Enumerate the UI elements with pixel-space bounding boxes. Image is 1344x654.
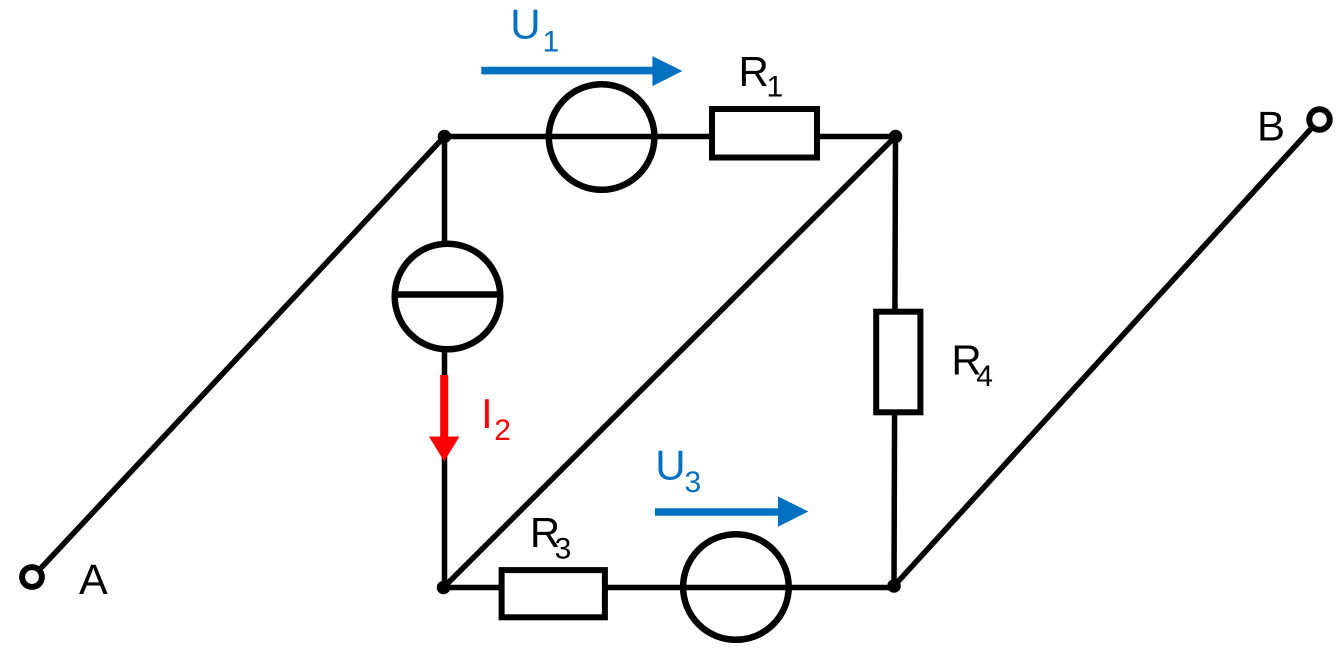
svg-text:1: 1: [767, 71, 784, 104]
voltage arrow U1 (blue): [481, 56, 682, 86]
voltage source U3: [683, 534, 789, 640]
current source I2: [395, 244, 501, 350]
svg-text:B: B: [1257, 103, 1285, 150]
svg-text:1: 1: [543, 25, 560, 58]
wire right vertical (through R4): [894, 137, 896, 587]
node top-left junction: [438, 130, 452, 144]
voltage source U1: [549, 84, 655, 190]
svg-text:R: R: [739, 48, 769, 95]
svg-text:3: 3: [685, 466, 702, 499]
svg-text:U: U: [655, 441, 685, 488]
current arrow I2 (red): [429, 375, 460, 461]
svg-text:U: U: [510, 1, 540, 48]
wire bottom-right node to B: [894, 129, 1311, 586]
node top-right junction: [889, 130, 903, 144]
wire diagonal bottom node to top-right node: [444, 137, 896, 588]
voltage arrow U3 (blue): [655, 496, 808, 526]
node bottom-left junction: [437, 581, 451, 595]
svg-text:2: 2: [494, 414, 511, 447]
svg-text:3: 3: [555, 533, 572, 566]
terminal A: [22, 567, 42, 587]
wire bottom horizontal (through U3): [444, 585, 895, 591]
resistor R4: [876, 312, 920, 413]
wire A to top node: [41, 137, 445, 569]
terminal B: [1309, 109, 1329, 129]
resistor R3: [502, 570, 605, 617]
svg-text:A: A: [79, 556, 108, 604]
svg-text:I: I: [481, 390, 493, 437]
wire top horizontal (node to node through U1): [445, 134, 896, 140]
resistor R1: [712, 109, 817, 158]
wire left vertical (top node to bottom node): [442, 137, 448, 588]
svg-text:4: 4: [976, 360, 993, 393]
node bottom-right junction: [887, 579, 901, 593]
